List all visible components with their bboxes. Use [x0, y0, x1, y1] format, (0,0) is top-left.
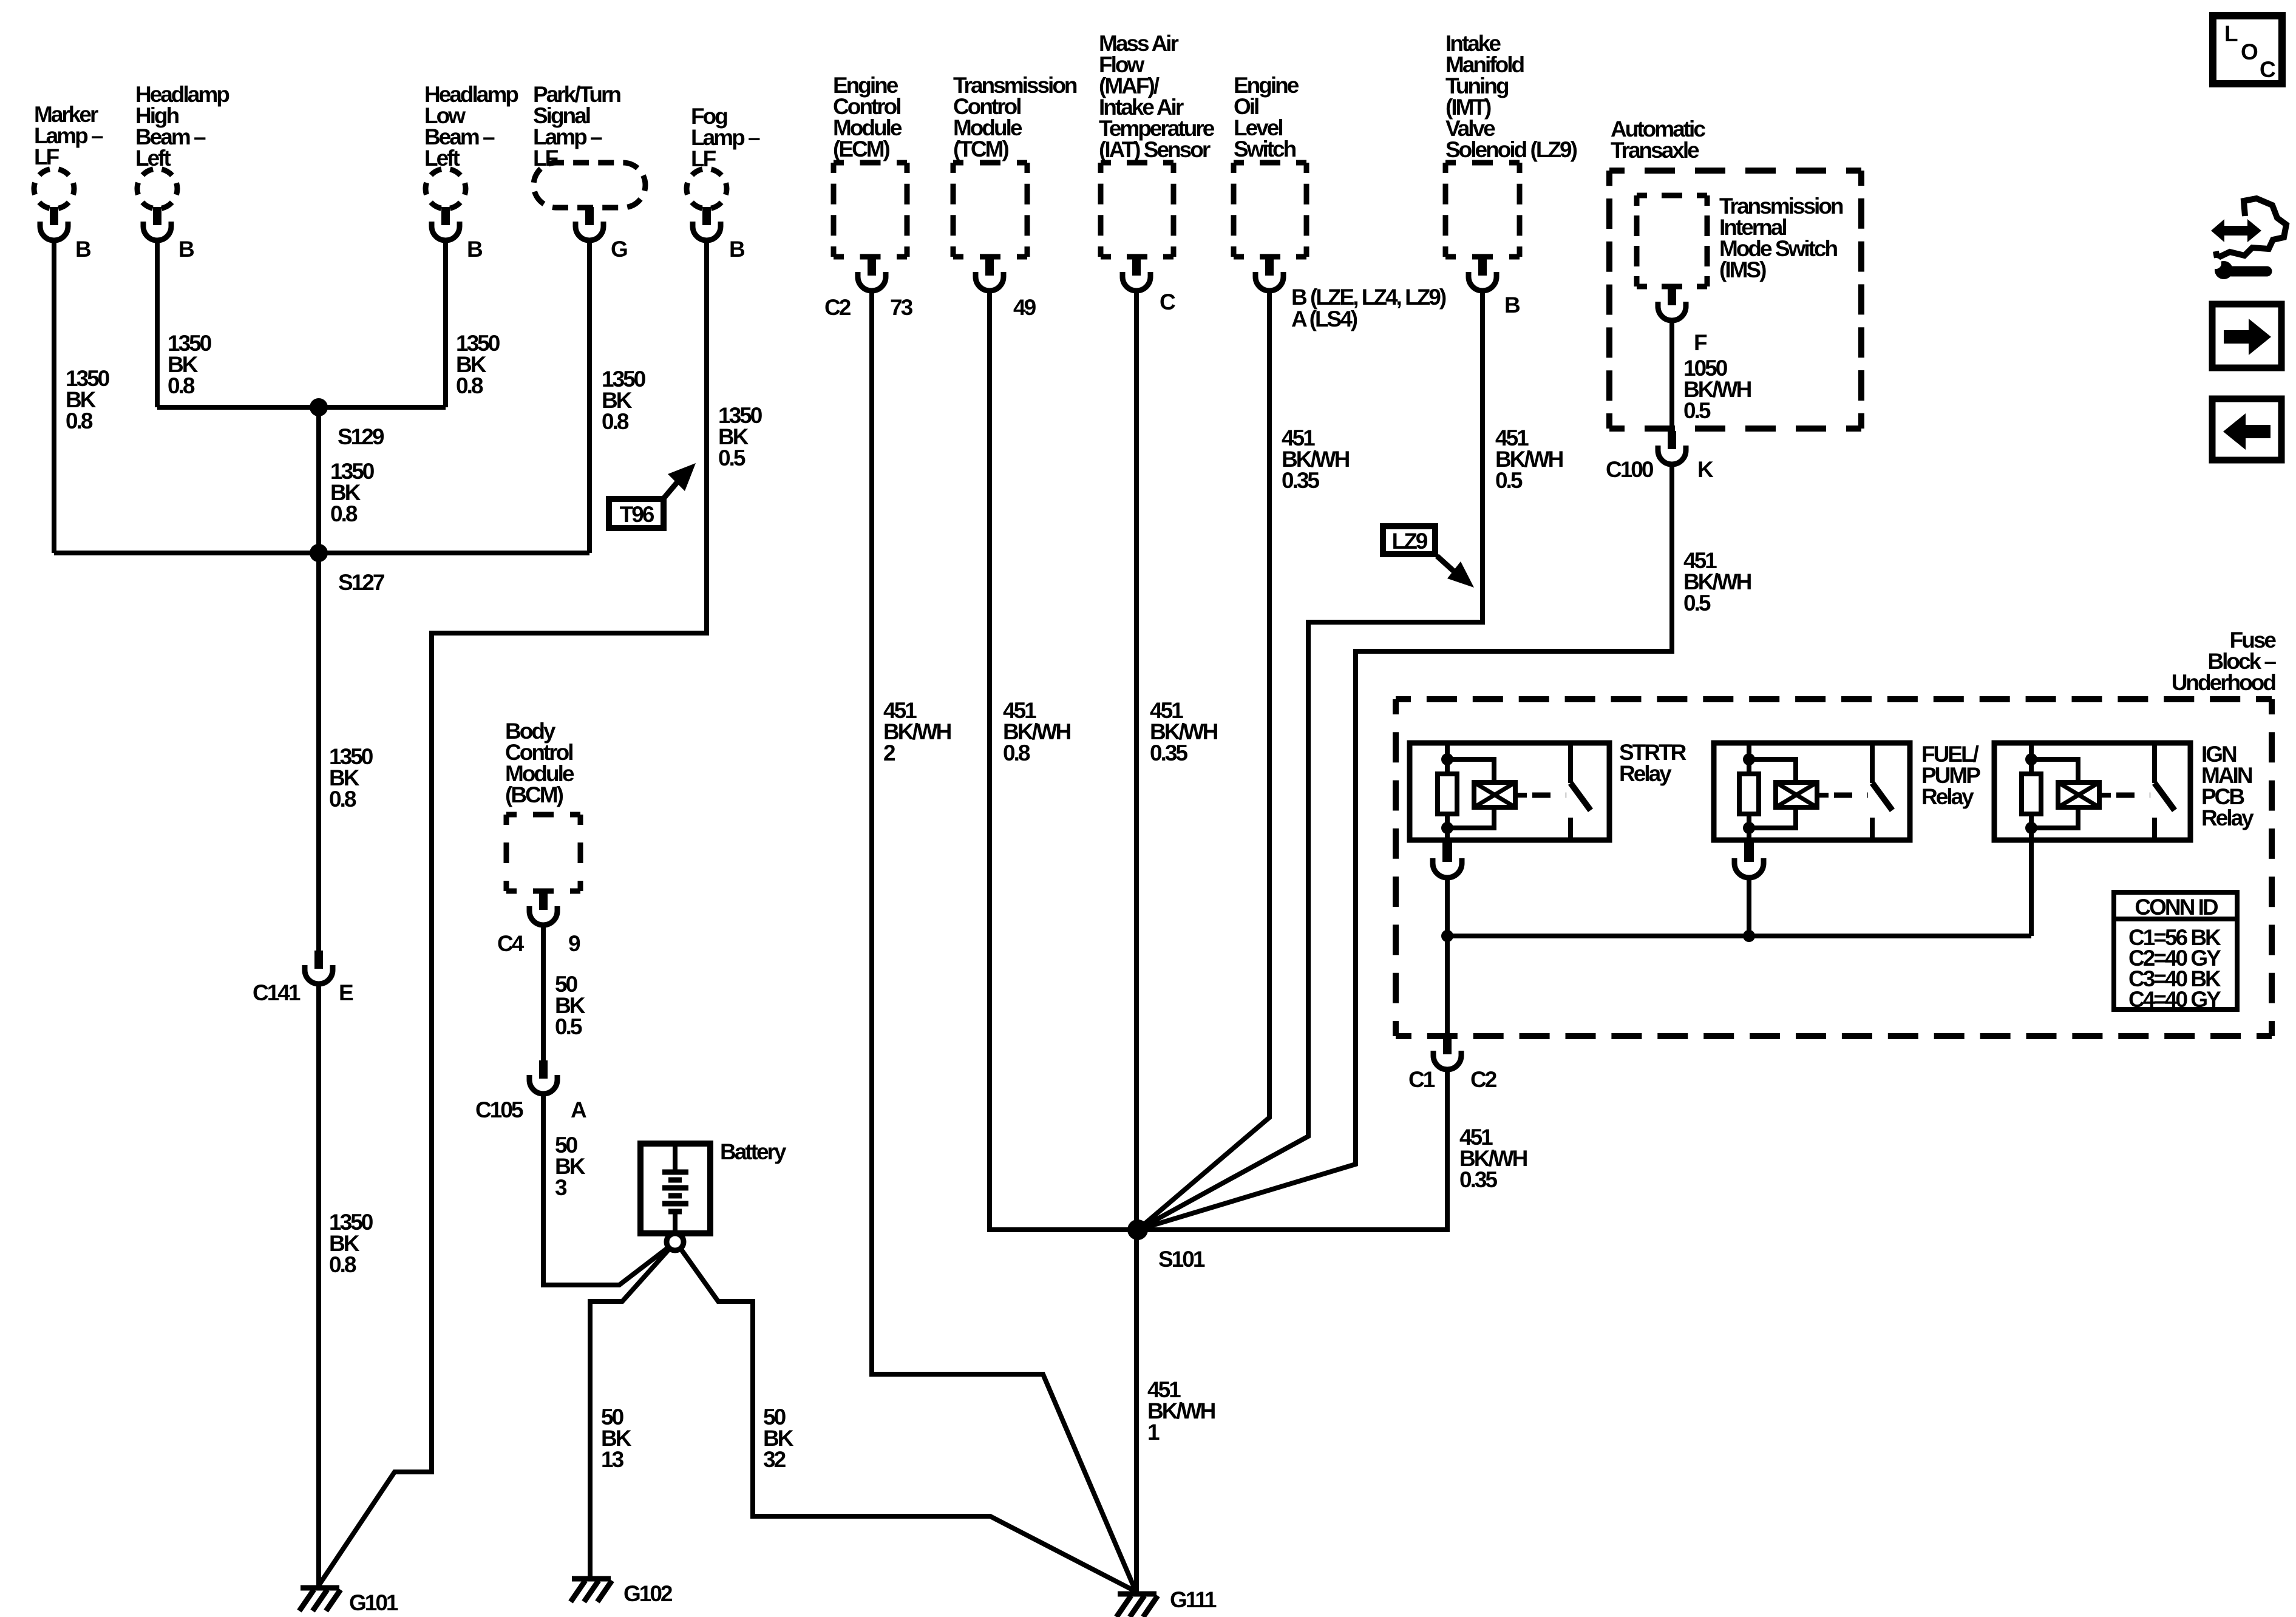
svg-text:0.35: 0.35 [1150, 741, 1187, 765]
module IMT Valve Solenoid dashed box [1445, 163, 1520, 257]
ground G102 [571, 1579, 612, 1602]
connector below FUEL/PUMP relay [1734, 840, 1764, 878]
wire 1350 BK 0.8 low beam to S129 [443, 239, 448, 407]
junction S101 [1127, 1219, 1148, 1240]
svg-text:32: 32 [763, 1447, 786, 1472]
svg-text:C: C [1160, 290, 1175, 314]
value label 451 BK/WH 1 [1147, 1377, 1215, 1445]
wire 1350 BK 0.8 park/turn to S127 [587, 239, 592, 553]
icon LOC box [2213, 16, 2282, 84]
ground G101 [299, 1588, 341, 1611]
svg-text:(ECM): (ECM) [833, 137, 890, 161]
svg-text:0.35: 0.35 [1282, 468, 1319, 493]
svg-text:0.5: 0.5 [1683, 398, 1711, 423]
svg-text:C141: C141 [253, 980, 301, 1005]
label Mass Air Flow (MAF)/ Intake Air Temperature (IAT) Sensor [1099, 31, 1215, 162]
battery terminal node [667, 1233, 684, 1250]
wire S129 horizontal [157, 405, 446, 410]
svg-text:0.8: 0.8 [602, 409, 629, 434]
svg-text:G111: G111 [1170, 1587, 1217, 1612]
svg-text:0.5: 0.5 [555, 1014, 582, 1039]
wire IGN relay to bus [2029, 840, 2034, 936]
svg-text:13: 13 [601, 1447, 624, 1472]
value label 50 BK 13 [601, 1405, 632, 1472]
svg-text:9: 9 [568, 931, 580, 956]
svg-text:S101: S101 [1158, 1247, 1205, 1272]
svg-text:L: L [2224, 21, 2238, 46]
connector pins B/A of engine oil level switch [1255, 257, 1283, 291]
label Fog Lamp - LF [691, 104, 760, 171]
wire 451 BK/WH 0.5 C100 to S101 [1138, 466, 1672, 1230]
label IGN MAIN PCB Relay [2201, 742, 2254, 830]
svg-text:0.8: 0.8 [329, 787, 356, 812]
svg-text:Left: Left [424, 146, 460, 171]
lamp E1 Marker Lamp - LF [34, 169, 74, 240]
value label 451 BK/WH 0.35 [1282, 425, 1350, 493]
connector C2 pin 73 of ECM [858, 257, 886, 291]
callout box LZ9 [1383, 526, 1474, 588]
wire 1050 BK/WH 0.5 IMS to C100 [1669, 319, 1674, 431]
svg-text:G101: G101 [349, 1590, 398, 1615]
wire 1350 BK 0.8 marker lamp to S127 [52, 239, 56, 553]
svg-text:B: B [729, 237, 745, 262]
svg-text:Relay: Relay [2201, 805, 2254, 830]
label Engine Control Module (ECM) [833, 73, 902, 161]
svg-text:(IAT) Sensor: (IAT) Sensor [1099, 137, 1211, 162]
wire 451 BK/WH 2 ECM to G111 [872, 290, 1136, 1592]
svg-text:49: 49 [1013, 295, 1036, 320]
module MAF/IAT sensor dashed box [1101, 163, 1173, 257]
assembly Automatic Transaxle dashed box [1609, 171, 1861, 429]
svg-text:LF: LF [691, 146, 716, 171]
svg-text:1: 1 [1147, 1420, 1160, 1445]
svg-text:C1: C1 [1408, 1067, 1435, 1092]
svg-text:73: 73 [890, 295, 913, 320]
connector pin B of IMT valve solenoid [1469, 257, 1496, 291]
wire 1350 BK 0.8 S129 to S127 [316, 407, 321, 553]
svg-text:0.8: 0.8 [329, 1252, 356, 1277]
wire 1350 BK 0.8 high beam to S129 [155, 239, 160, 407]
svg-text:B: B [75, 237, 91, 262]
relay K2 FUEL/PUMP Relay [1714, 743, 1910, 840]
svg-text:0.5: 0.5 [1683, 591, 1711, 615]
connector pin C of MAF [1123, 257, 1150, 291]
svg-text:C105: C105 [475, 1097, 523, 1122]
svg-text:S127: S127 [338, 570, 384, 595]
svg-text:Underhood: Underhood [2172, 670, 2276, 695]
assembly Fuse Block - Underhood dashed box [1396, 699, 2272, 1036]
value label 1350 BK 0.8 [329, 744, 373, 812]
value label 1350 BK 0.8 [330, 459, 375, 526]
svg-text:0.5: 0.5 [1495, 468, 1523, 493]
value label 1350 BK 0.8 [168, 331, 212, 398]
label Marker Lamp - LF [34, 102, 103, 169]
connector C100 pin K [1658, 431, 1686, 464]
wire 451 BK/WH 0.8 TCM to S101 [990, 290, 1138, 1230]
svg-text:3: 3 [555, 1175, 567, 1200]
svg-text:(BCM): (BCM) [505, 782, 563, 807]
svg-text:0.35: 0.35 [1459, 1167, 1497, 1192]
value label 50 BK 0.5 [555, 972, 586, 1039]
svg-text:C4: C4 [497, 931, 525, 956]
connector C4 pin 9 of BCM [529, 891, 557, 925]
svg-text:F: F [1694, 330, 1707, 355]
wire S127 horizontal [54, 551, 589, 555]
svg-text:0.5: 0.5 [718, 446, 746, 470]
wire 451 BK/WH 0.5 IMT solenoid to S101 [1138, 290, 1483, 1230]
svg-text:B: B [178, 237, 194, 262]
svg-text:CONN ID: CONN ID [2135, 895, 2218, 920]
svg-text:Left: Left [135, 146, 171, 171]
icon arrow-left box [2212, 399, 2281, 460]
value label 451 BK/WH 0.8 [1003, 698, 1071, 765]
relay K3 IGN MAIN PCB Relay [1994, 743, 2190, 840]
icon arrow-right box [2212, 304, 2281, 368]
wire 1350 BK 0.8 C141 to G101 [316, 985, 321, 1585]
lamp E2 Headlamp High Beam - Left [137, 169, 177, 240]
lamp E3 Headlamp Low Beam - Left [426, 169, 466, 240]
svg-text:Switch: Switch [1234, 137, 1296, 161]
svg-text:Battery: Battery [720, 1139, 787, 1164]
label Headlamp High Beam - Left [135, 82, 229, 171]
junction S127 [310, 544, 328, 562]
value label 1350 BK 0.5 [718, 403, 763, 470]
table CONN ID [2114, 892, 2237, 1012]
value label 50 BK 32 [763, 1405, 794, 1472]
wire 451 BK/WH MAF to G111 through S101 [1134, 290, 1139, 1592]
svg-text:C2: C2 [1470, 1067, 1497, 1092]
wire 1350 BK 0.5 fog lamp to G101 [319, 239, 707, 1585]
svg-text:O: O [2241, 39, 2258, 64]
label Transmission Internal Mode Switch (IMS) [1719, 194, 1843, 282]
value label 451 BK/WH 0.5 [1495, 425, 1563, 493]
value label 1350 BK 0.8 [329, 1210, 373, 1277]
svg-text:Transaxle: Transaxle [1611, 138, 1699, 163]
label STRTR Relay [1619, 740, 1686, 786]
label Intake Manifold Tuning (IMT) Valve Solenoid (LZ9) [1445, 31, 1577, 162]
value label 1350 BK 0.8 [456, 331, 500, 398]
wire 50 BK 0.5 BCM to C105 [541, 924, 546, 1060]
svg-text:(IMS): (IMS) [1719, 257, 1766, 282]
svg-text:0.8: 0.8 [456, 373, 483, 398]
connector C141 pin E [305, 951, 333, 984]
value label 1050 BK/WH 0.5 [1683, 356, 1751, 423]
svg-text:E: E [339, 980, 353, 1005]
label Body Control Module (BCM) [505, 719, 574, 807]
wire STRTR relay to C1 [1445, 879, 1450, 1036]
icon vehicle with arrow and wrench [2210, 198, 2286, 279]
value label 451 BK/WH 0.35 [1150, 698, 1218, 765]
svg-text:S129: S129 [338, 424, 384, 449]
relay K1 STRTR Relay [1410, 743, 1609, 840]
junction S129 [310, 398, 328, 416]
ground G111 [1116, 1594, 1158, 1617]
label Park/Turn Signal Lamp - LF [533, 82, 620, 171]
wire ground bus inside fuse block [1447, 934, 2031, 938]
svg-text:C: C [2260, 57, 2275, 82]
svg-text:Relay: Relay [1921, 784, 1974, 809]
value label 1350 BK 0.8 [66, 366, 110, 433]
label Headlamp Low Beam - Left [424, 82, 518, 171]
svg-text:C4=40 GY: C4=40 GY [2128, 987, 2221, 1012]
svg-text:B: B [467, 237, 483, 262]
switch IMS dashed box [1637, 195, 1707, 286]
svg-text:G: G [611, 237, 627, 262]
connector pin F of IMS [1658, 286, 1686, 320]
svg-text:Relay: Relay [1619, 761, 1672, 786]
svg-text:A: A [571, 1097, 586, 1122]
module TCM dashed box [953, 163, 1027, 257]
connector below STRTR relay [1433, 840, 1462, 878]
wire 451 BK/WH 0.35 C2 to S101 [1138, 1071, 1447, 1230]
svg-text:G102: G102 [623, 1581, 673, 1606]
wire 50 BK 32 battery to G111 [681, 1249, 1136, 1592]
wire FUEL/PUMP relay to bus [1747, 879, 1751, 936]
svg-text:Solenoid (LZ9): Solenoid (LZ9) [1445, 137, 1577, 162]
wire 50 BK 3 C105 to battery node [543, 1095, 668, 1285]
connector C105 pin A [529, 1060, 557, 1094]
battery G1 [640, 1144, 710, 1233]
label Engine Oil Level Switch [1234, 73, 1299, 161]
svg-text:0.8: 0.8 [1003, 741, 1030, 765]
label Fuse Block - Underhood [2172, 628, 2277, 695]
label Transmission Control Module (TCM) [953, 73, 1077, 161]
svg-text:LF: LF [533, 146, 559, 171]
value label 451 BK/WH 0.35 [1459, 1125, 1527, 1192]
value label 451 BK/WH 0.5 [1683, 548, 1751, 615]
svg-text:K: K [1697, 457, 1714, 482]
svg-text:B: B [1504, 293, 1520, 317]
svg-text:T96: T96 [620, 502, 654, 527]
connector pin 49 of TCM [976, 257, 1004, 291]
svg-text:C100: C100 [1606, 457, 1654, 482]
svg-text:A (LS4): A (LS4) [1291, 307, 1357, 331]
wire 50 BK 13 battery to G102 [590, 1249, 670, 1576]
label Automatic Transaxle [1611, 117, 1705, 163]
junction on bus at FUEL/PUMP wire [1743, 930, 1755, 942]
svg-text:LF: LF [34, 144, 59, 169]
module ECM dashed box [834, 163, 907, 257]
svg-text:0.8: 0.8 [66, 408, 93, 433]
lamp E5 Fog Lamp - LF [687, 169, 727, 240]
wire 1350 BK 0.8 S127 to C141 [316, 553, 321, 951]
svg-text:LZ9: LZ9 [1392, 529, 1428, 554]
value label 50 BK 3 [555, 1133, 586, 1200]
svg-text:2: 2 [883, 741, 895, 765]
value label 451 BK/WH 2 [883, 698, 951, 765]
lamp E4 Park/Turn Signal Lamp - LF [534, 163, 645, 240]
wire 451 BK/WH 0.35 oil level switch to S101 [1138, 290, 1269, 1230]
svg-text:0.8: 0.8 [330, 501, 358, 526]
label FUEL/PUMP Relay [1921, 742, 1980, 809]
module Engine Oil Level Switch dashed box [1234, 163, 1306, 257]
junction on bus at STRTR wire [1441, 930, 1453, 942]
connector C1/C2 below fuse block [1433, 1036, 1461, 1070]
svg-text:(TCM): (TCM) [953, 137, 1008, 161]
svg-text:C2: C2 [824, 295, 851, 320]
svg-text:B (LZE, LZ4, LZ9): B (LZE, LZ4, LZ9) [1291, 285, 1446, 310]
value label 1350 BK 0.8 [602, 367, 646, 434]
callout box T96 [609, 463, 696, 528]
module BCM dashed box [506, 815, 580, 891]
svg-text:0.8: 0.8 [168, 373, 195, 398]
